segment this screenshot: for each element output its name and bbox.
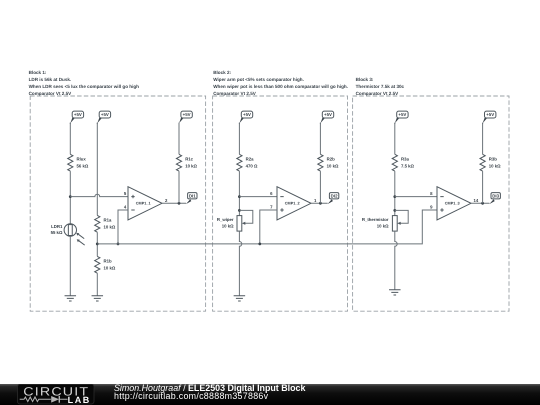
svg-text:+5V: +5V: [243, 112, 251, 117]
svg-text:4: 4: [124, 205, 127, 210]
wire A bottom: [69, 236, 71, 296]
flag DI1: [186, 193, 197, 205]
svg-text:10 kΩ: 10 kΩ: [104, 266, 116, 271]
svg-text:R2b: R2b: [327, 156, 335, 161]
svg-text:6: 6: [270, 191, 273, 196]
power +5V V3: [179, 111, 192, 124]
op-amp CMP1_3: [437, 187, 471, 220]
svg-text:10 kΩ: 10 kΩ: [185, 164, 197, 169]
ground G1: [65, 296, 77, 301]
svg-text:LDR is 56k at Dusk.: LDR is 56k at Dusk.: [29, 77, 72, 82]
svg-text:10 kΩ: 10 kΩ: [489, 164, 501, 169]
wire A mid: [69, 171, 71, 224]
svg-text:14: 14: [474, 198, 479, 203]
resistor R2b: [318, 154, 339, 171]
svg-text:Comparator Vt 2.5V: Comparator Vt 2.5V: [213, 91, 257, 96]
wire reference 2.5V rail: [97, 210, 437, 244]
block 3 dashed border: [353, 96, 509, 311]
svg-text:When LDR sees <5 lux the compa: When LDR sees <5 lux the comparator will…: [29, 84, 140, 89]
svg-text:CMP1_2: CMP1_2: [285, 201, 300, 205]
svg-text:R3a: R3a: [401, 156, 409, 161]
circuitlab logo box: [17, 384, 95, 405]
power +5V V1: [70, 111, 83, 124]
wire G top: [482, 123, 484, 155]
svg-text:R3b: R3b: [489, 156, 497, 161]
svg-text:LDR1: LDR1: [51, 224, 63, 229]
op-amp CMP1_1: [128, 187, 162, 220]
svg-text:470 Ω: 470 Ω: [246, 164, 258, 169]
svg-text:R1a: R1a: [104, 218, 112, 223]
power +5V V6: [395, 111, 408, 124]
svg-text:7: 7: [270, 205, 273, 210]
wire noninverting input block2: [260, 210, 277, 244]
wire output block2: [311, 202, 328, 204]
svg-text:Wiper arm pot <5% sets compara: Wiper arm pot <5% sets comparator high.: [213, 77, 304, 82]
flag DI2: [328, 193, 339, 205]
wire B top: [96, 123, 98, 216]
wire C top: [178, 123, 180, 155]
ground G4: [389, 290, 401, 295]
wire B bottom: [96, 273, 98, 296]
wire inverting input block1: [118, 210, 128, 244]
svg-text:CMP1_1: CMP1_1: [136, 201, 151, 205]
wire D top: [238, 123, 240, 155]
wire D mid: [238, 171, 240, 216]
resistor R1c: [176, 154, 197, 171]
svg-text:LAB: LAB: [68, 395, 91, 405]
svg-text:8: 8: [430, 191, 433, 196]
svg-text:10 kΩ: 10 kΩ: [222, 224, 234, 229]
wire G bottom: [482, 171, 484, 203]
wire A top: [69, 123, 71, 155]
ground G2: [92, 296, 104, 301]
svg-text:Rlux: Rlux: [77, 156, 87, 161]
svg-text:Thermistor 7.5k at 30c: Thermistor 7.5k at 30c: [356, 84, 405, 89]
power +5V V2: [97, 111, 110, 124]
svg-text:10 kΩ: 10 kΩ: [377, 224, 389, 229]
wire noninverting input block1 (hops over B): [70, 194, 128, 196]
wire inverting input block3: [395, 196, 437, 198]
wire E top: [319, 123, 321, 155]
photoresistor LDR1: [51, 224, 85, 245]
svg-text:5: 5: [124, 191, 127, 196]
flag DI3: [489, 193, 500, 205]
ground G3: [234, 296, 246, 301]
node F wiper: [393, 209, 396, 212]
node D pin6: [238, 195, 241, 198]
power +5V V7: [483, 111, 496, 124]
svg-text:10 kΩ: 10 kΩ: [327, 164, 339, 169]
svg-text:55 kΩ: 55 kΩ: [51, 230, 63, 235]
wire F mid: [394, 171, 396, 216]
node D wiper: [238, 209, 241, 212]
node pin7 ref: [258, 243, 261, 246]
wire E bottom: [319, 171, 321, 203]
svg-text:DI1: DI1: [189, 193, 196, 198]
svg-text:R_thermistor: R_thermistor: [362, 217, 389, 222]
svg-text:R_wiper: R_wiper: [217, 217, 234, 222]
svg-text:When wiper pot is less than 50: When wiper pot is less than 500 ohm comp…: [213, 84, 348, 89]
svg-text:Block 1:: Block 1:: [29, 70, 47, 75]
wire F bottom with hop: [395, 231, 397, 290]
svg-text:Block 2:: Block 2:: [213, 70, 231, 75]
svg-text:2: 2: [165, 198, 168, 203]
resistor R1b: [95, 256, 116, 273]
svg-text:7.5 kΩ: 7.5 kΩ: [401, 164, 415, 169]
svg-text:+5V: +5V: [398, 112, 406, 117]
svg-text:+5V: +5V: [324, 112, 332, 117]
svg-text:R2a: R2a: [246, 156, 254, 161]
rheostat R_thermistor: [362, 210, 408, 231]
svg-text:10 kΩ: 10 kΩ: [104, 225, 116, 230]
svg-text:+5V: +5V: [183, 112, 191, 117]
svg-text:Comparator Vt 2.5V: Comparator Vt 2.5V: [29, 91, 73, 96]
node F pin8: [393, 195, 396, 198]
wire C bottom: [178, 171, 180, 203]
svg-text:Block 3:: Block 3:: [356, 77, 374, 82]
resistor R3b: [480, 154, 501, 171]
svg-text:R1b: R1b: [104, 259, 112, 264]
annotation block 2 text: [213, 70, 348, 96]
wire F top: [394, 123, 396, 155]
svg-text:R1c: R1c: [185, 156, 193, 161]
svg-text:CMP1_3: CMP1_3: [445, 201, 460, 205]
svg-text:Comparator Vt 2.5V: Comparator Vt 2.5V: [356, 91, 400, 96]
svg-text:9: 9: [430, 205, 433, 210]
node pin4 ref: [117, 243, 120, 246]
annotation block 1 text: [29, 70, 140, 96]
node junction A/+in: [69, 195, 72, 198]
annotation block 3 text: [356, 77, 405, 96]
svg-text:+5V: +5V: [101, 112, 109, 117]
wire inverting input block2: [239, 196, 277, 198]
svg-text:56 kΩ: 56 kΩ: [77, 164, 89, 169]
wire output block1: [162, 202, 186, 204]
svg-text:DI2: DI2: [331, 193, 338, 198]
power +5V V4: [239, 111, 252, 124]
power +5V V5: [320, 111, 333, 124]
wire D bottom with hop: [239, 231, 241, 296]
footer title text: [114, 384, 305, 401]
node output pullup 2: [319, 202, 322, 205]
resistor R3a: [392, 154, 414, 171]
logo resistor-diode squiggle: [20, 397, 68, 402]
svg-text:+5V: +5V: [486, 112, 494, 117]
svg-text:DI3: DI3: [492, 193, 499, 198]
svg-text:+5V: +5V: [74, 112, 82, 117]
node divider mid: [96, 243, 99, 246]
op-amp CMP1_2: [277, 187, 311, 220]
resistor R2a: [237, 154, 258, 171]
wire output block3: [471, 202, 489, 204]
resistor R1a: [95, 215, 116, 232]
block 1 dashed border: [30, 96, 205, 311]
node output pullup 1: [178, 202, 181, 205]
potentiometer R_wiper: [217, 210, 253, 231]
wire B mid: [96, 232, 98, 256]
block 2 dashed border: [213, 96, 348, 311]
node output pullup 3: [481, 202, 484, 205]
svg-text:1: 1: [314, 198, 317, 203]
resistor Rlux: [68, 154, 89, 171]
